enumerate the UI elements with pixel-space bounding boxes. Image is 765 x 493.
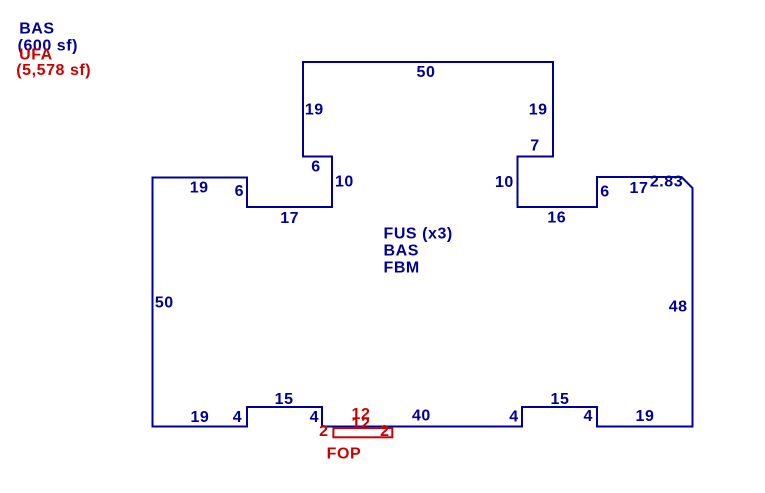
svg-text:6: 6 bbox=[235, 183, 244, 200]
svg-text:4: 4 bbox=[233, 409, 242, 426]
svg-text:FUS (x3): FUS (x3) bbox=[384, 226, 453, 243]
svg-text:BAS: BAS bbox=[384, 243, 419, 260]
svg-text:6: 6 bbox=[311, 158, 320, 175]
svg-text:6: 6 bbox=[600, 184, 609, 201]
building outline wall polygon bbox=[153, 62, 693, 427]
svg-text:BAS: BAS bbox=[19, 21, 54, 38]
svg-text:(5,578 sf): (5,578 sf) bbox=[16, 62, 91, 79]
svg-text:50: 50 bbox=[155, 294, 174, 311]
svg-text:19: 19 bbox=[529, 102, 548, 119]
svg-text:19: 19 bbox=[305, 102, 324, 119]
svg-text:2: 2 bbox=[319, 423, 328, 440]
svg-text:40: 40 bbox=[412, 408, 431, 425]
svg-text:7: 7 bbox=[530, 138, 539, 155]
svg-text:19: 19 bbox=[190, 409, 209, 426]
svg-text:19: 19 bbox=[636, 408, 655, 425]
svg-text:2.83: 2.83 bbox=[650, 173, 683, 190]
svg-text:4: 4 bbox=[583, 408, 592, 425]
svg-text:FBM: FBM bbox=[384, 260, 420, 277]
svg-text:4: 4 bbox=[310, 409, 319, 426]
svg-text:10: 10 bbox=[335, 173, 354, 190]
svg-text:4: 4 bbox=[509, 409, 518, 426]
svg-text:UFA: UFA bbox=[19, 47, 53, 64]
svg-text:FOP: FOP bbox=[327, 445, 362, 462]
svg-text:15: 15 bbox=[275, 391, 294, 408]
svg-text:16: 16 bbox=[547, 209, 566, 226]
svg-text:19: 19 bbox=[190, 180, 209, 197]
svg-text:10: 10 bbox=[495, 174, 514, 191]
FOP porch rectangle bbox=[333, 428, 392, 437]
svg-text:12: 12 bbox=[352, 416, 371, 433]
svg-text:17: 17 bbox=[280, 210, 299, 227]
svg-text:48: 48 bbox=[669, 299, 688, 316]
svg-text:17: 17 bbox=[630, 180, 649, 197]
svg-text:50: 50 bbox=[417, 64, 436, 81]
svg-text:15: 15 bbox=[551, 391, 570, 408]
svg-text:2: 2 bbox=[380, 423, 389, 440]
